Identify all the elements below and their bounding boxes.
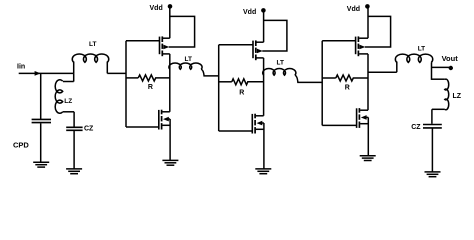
- resistor R stage1: [126, 77, 138, 79]
- transistor PMOS M2a bulk arrow: [257, 49, 263, 54]
- svg-text:R: R: [148, 84, 153, 91]
- wire LZ branch: [73, 73, 75, 81]
- transistor PMOS M1a channel segments: [161, 36, 163, 42]
- transistor PMOS M3a bulk arrow: [359, 45, 365, 50]
- svg-text:R: R: [239, 90, 244, 97]
- svg-text:R: R: [345, 84, 350, 91]
- ground CZ output: [425, 171, 441, 173]
- inductor LT input riser left: [73, 62, 75, 74]
- transistor NMOS M3b gate bar: [356, 108, 358, 128]
- wire CZ to ground: [73, 131, 75, 169]
- inductor LZ output coil: [445, 79, 449, 110]
- wire CPD branch: [40, 73, 42, 119]
- wire LZ to CZ output: [431, 109, 433, 124]
- transistor PMOS M1a source stub: [163, 37, 170, 39]
- wire gate bus stage2: [218, 45, 220, 131]
- wire LT2 to stage3: [295, 75, 322, 82]
- resistor R stage2: [219, 81, 232, 83]
- wire NMOS source to ground stage2: [263, 123, 265, 169]
- wire Vdd to PMOS source stage3: [367, 7, 369, 38]
- inductor LZ input lead top: [63, 81, 74, 83]
- wire output bus stage1: [169, 54, 171, 112]
- transistor NMOS M1b gate lead: [126, 126, 159, 128]
- wire Vdd to PMOS source stage2: [263, 11, 265, 42]
- transistor PMOS M2a source stub: [257, 41, 264, 43]
- transistor NMOS M1b source stub: [162, 124, 170, 126]
- ground CPD: [33, 161, 49, 163]
- wire stage3 to LT output: [368, 71, 397, 73]
- svg-text:Vdd: Vdd: [243, 9, 256, 16]
- transistor NMOS M1b bulk arrow: [167, 118, 170, 120]
- transistor NMOS M2b drain stub: [256, 115, 264, 117]
- node Vdd dot stage3: [365, 4, 370, 9]
- wire NMOS source to ground stage1: [169, 119, 171, 160]
- inductor LT1 coil stage1-2: [169, 63, 202, 69]
- inductor LZ input lead bottom: [63, 111, 74, 113]
- wire gate bus stage1: [125, 41, 127, 127]
- op-amp none; transistor PMOS M3a gate lead: [322, 40, 355, 42]
- inductor LZ output lead top: [432, 78, 445, 80]
- svg-text:LZ: LZ: [453, 93, 462, 100]
- svg-text:Vdd: Vdd: [347, 6, 360, 13]
- svg-text:LT: LT: [89, 41, 96, 48]
- wire NMOS source to ground stage3: [367, 117, 369, 155]
- op-amp none; transistor PMOS M1a gate lead: [126, 40, 160, 42]
- transistor NMOS M3b bulk arrow: [365, 116, 369, 118]
- inductor LZ input coil: [55, 80, 63, 114]
- wire CZ output to ground: [431, 128, 433, 171]
- transistor PMOS M3a channel segments: [357, 36, 359, 42]
- inductor LT input coil: [72, 54, 108, 62]
- svg-text:CZ: CZ: [84, 126, 94, 133]
- wire Vdd bulk loop stage3: [365, 16, 391, 47]
- wire Vdd to PMOS source stage1: [169, 7, 171, 38]
- wire LT1 to stage2: [201, 69, 219, 76]
- capacitor CPD: [32, 118, 51, 120]
- ground stage2: [255, 168, 271, 170]
- transistor NMOS M3b drain stub: [360, 109, 368, 111]
- transistor NMOS M1b channel segments: [161, 110, 163, 115]
- wire Vdd bulk loop stage1: [169, 16, 195, 47]
- wire Vout tap: [432, 66, 450, 68]
- transistor PMOS M2a gate bar: [252, 41, 254, 59]
- ground stage3: [360, 155, 376, 157]
- wire CPD to ground: [40, 123, 42, 162]
- node Vdd dot stage2: [261, 8, 266, 13]
- transistor NMOS M3b channel segments: [358, 108, 360, 113]
- capacitor CZ output: [423, 124, 442, 126]
- svg-text:LZ: LZ: [64, 98, 72, 105]
- svg-text:CPD: CPD: [13, 141, 29, 150]
- wire LZ to CZ: [73, 112, 75, 127]
- svg-text:Iin: Iin: [17, 63, 25, 70]
- transistor NMOS M2b gate bar: [251, 114, 253, 134]
- transistor NMOS M2b channel segments: [254, 114, 256, 119]
- svg-text:CZ: CZ: [411, 124, 421, 131]
- inductor LT output coil: [395, 54, 432, 62]
- node Vdd dot stage1: [168, 4, 173, 9]
- node Vout dot: [449, 66, 453, 70]
- ground stage1: [162, 159, 178, 161]
- transistor PMOS M3a source stub: [359, 37, 368, 39]
- svg-text:Vout: Vout: [442, 54, 459, 63]
- transistor PMOS M2a drain stub: [257, 57, 264, 59]
- wire output bus stage3: [367, 54, 369, 110]
- svg-text:Vdd: Vdd: [150, 5, 163, 12]
- transistor NMOS M2b source stub: [256, 128, 264, 130]
- inductor LT2 coil stage2-3: [263, 69, 296, 76]
- transistor PMOS M1a bulk arrow: [163, 45, 169, 50]
- inductor LT output riser right: [431, 62, 433, 80]
- transistor NMOS M1b drain stub: [162, 111, 170, 113]
- svg-text:LT: LT: [418, 45, 425, 52]
- wire Vdd bulk loop stage2: [262, 20, 287, 51]
- inductor LZ output lead bottom: [432, 108, 445, 110]
- inductor LT output riser left: [396, 62, 398, 73]
- transistor PMOS M3a gate bar: [355, 37, 357, 55]
- wire LT to stage1 input: [107, 72, 126, 74]
- transistor PMOS M1a drain stub: [163, 53, 170, 55]
- ground CZ input: [66, 168, 82, 170]
- transistor PMOS M3a drain stub: [359, 53, 368, 55]
- transistor NMOS M3b source stub: [360, 123, 368, 125]
- transistor NMOS M3b gate lead: [322, 124, 356, 126]
- inductor LT input riser right: [106, 62, 108, 74]
- transistor PMOS M2a channel segments: [255, 40, 257, 46]
- transistor NMOS M1b gate bar: [158, 110, 160, 130]
- wire Iin input line with arrow: [19, 72, 74, 74]
- transistor NMOS M2b gate lead: [219, 130, 253, 132]
- svg-text:LT: LT: [277, 60, 284, 67]
- capacitor CZ input: [66, 126, 82, 128]
- transistor NMOS M2b bulk arrow: [260, 122, 264, 124]
- wire output bus stage2: [263, 58, 265, 116]
- transistor PMOS M1a gate bar: [159, 37, 161, 55]
- wire gate bus stage3: [321, 41, 323, 126]
- svg-text:LT: LT: [185, 56, 192, 63]
- resistor R stage3: [322, 77, 336, 79]
- op-amp none; transistor PMOS M2a gate lead: [219, 44, 253, 46]
